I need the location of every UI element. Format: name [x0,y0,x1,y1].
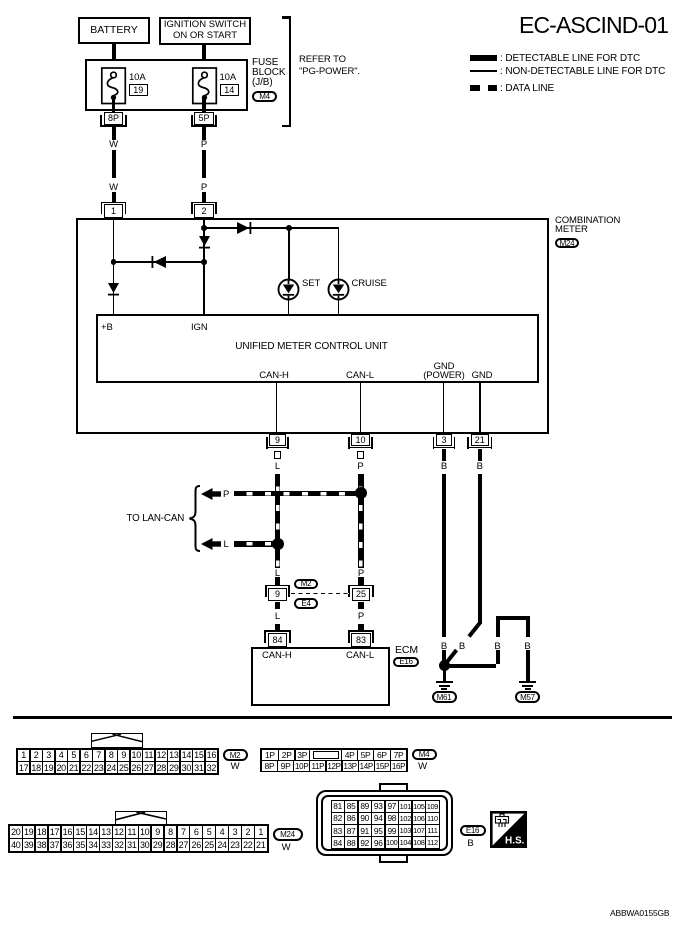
ECM CAN-H label [262,651,292,660]
M24 oval [273,828,303,841]
connector M2 key [91,733,143,748]
ECM box [251,647,391,706]
connector 21 (meter) [471,434,490,446]
IGN pin label [191,323,208,332]
legend non-detectable text [500,67,665,76]
label P above conn25 [353,569,369,578]
M4 colour W [414,762,431,771]
connector 8P [104,112,124,125]
label B [472,462,488,471]
connector M24 pin grid [8,824,269,853]
M2 oval [294,579,318,590]
legend data line text [500,84,554,93]
E16 housing tabs [379,783,409,792]
wire W segment [112,192,116,202]
GND pin label [464,371,500,380]
H.S. view icon [490,811,527,848]
label P below conn25 [353,612,369,621]
junction dot wire2 top [201,225,207,231]
legend detectable text [500,54,640,63]
M57 oval [515,691,540,703]
connector 3 (meter) [436,434,452,446]
+B pin label [101,323,113,332]
CAN-L data line [358,474,364,568]
wire fuse1 to 8P [112,97,116,113]
wire P segment [202,127,206,140]
CRUISE indicator lamp [327,278,350,301]
title EC-ASCIND-01 [420,12,668,39]
junction dot CAN-L / LAN [355,487,367,499]
arrow to LAN (P) [201,488,221,500]
fuse block label [252,58,285,88]
E16 housing outer [316,790,453,856]
wire unit pin x276.6 [276,381,278,434]
fuse 10A no.14 [191,66,218,106]
dashed pair line 9-25 [291,593,349,595]
E16 oval [460,825,486,836]
wire colour label W [106,140,122,149]
ground loop right vertical [526,620,530,637]
fuse block box M4 [85,59,248,111]
GND(POWER) pin label [423,362,465,380]
wire ignition to fuse (P) [202,45,206,73]
diagonal wire 21 to junction [440,620,485,665]
CAN-H data line [275,474,281,568]
connector M4 pin grid [260,748,408,772]
data line to LAN (L) [234,541,278,547]
ground loop bottom bar to junction [444,664,496,668]
ground junction dot [439,660,450,671]
M24 colour W [278,843,295,852]
label B [436,462,452,471]
label L above conn9 [270,569,286,578]
wire CRUISE lamp to unit [338,300,340,314]
label L [270,462,286,471]
ground loop left vertical [496,620,500,637]
horizontal wire y262 [114,261,205,263]
connector 84 (ECM) [264,630,290,632]
fuse block connector M4 oval [252,91,277,102]
wire to SET lamp [288,228,290,279]
label L below conn9 [270,612,286,621]
connector 9 (meter) [269,434,285,446]
arrow P label [223,490,229,499]
inline connector 25 (M2/E4) [348,585,373,587]
connector M24 key [115,811,167,826]
wire fuse2 to 5P [202,97,206,113]
label P [353,462,369,471]
fuse1 number 19 box [129,84,149,96]
junction dot wire2 mid [201,259,207,265]
ignition switch box [159,17,251,45]
diode D4 (right-pointing, y228) [236,221,252,235]
wire P segment [202,150,206,179]
E16 pin grid [331,800,440,849]
connector 1 (combination meter) [101,202,127,204]
SET label [302,279,320,288]
wire colour label P [196,183,212,192]
connector 10 (meter) [351,434,370,446]
connector M2 pin grid [16,748,219,775]
junction dot SET branch [286,225,292,231]
battery box [78,17,150,44]
wire colour label W [106,183,122,192]
combination meter label [555,216,620,234]
connector 5P [194,112,214,125]
wire to CRUISE lamp [338,227,340,279]
CRUISE label [352,279,387,288]
wire node2 down [203,220,205,314]
wire P segment [202,192,206,202]
data line to LAN (P) [234,491,362,497]
refer-to bracket [289,16,292,127]
separator line [13,716,672,719]
connector 2 (combination meter) [191,202,217,204]
M2 oval [223,749,248,761]
legend data line sample [470,85,497,91]
ground wire from conn21 (B) [478,474,482,624]
stub dot to ground [443,669,446,681]
wire W segment [112,150,116,179]
drawing code [610,909,669,918]
combination meter M24 oval [555,238,579,248]
diode D2 (down-pointing, wire1) [107,282,120,297]
wire node1 down [113,220,115,314]
arrow to LAN (L) [201,538,221,550]
wire SET lamp to unit [288,300,290,314]
legend non-detectable line sample [470,70,497,72]
unified meter control unit label [96,342,527,351]
horizontal wire y228 [204,227,339,229]
arrow L label [224,540,229,549]
stub B conn3 [442,449,446,461]
wire battery to fuse (W) [112,44,116,73]
legend detectable line sample [470,55,497,61]
ECM label [395,646,418,655]
junction dot wire1 [111,259,117,265]
CAN-L pin label [342,371,378,380]
ground symbol M57 [519,681,536,683]
connector 83 (ECM) [348,630,374,632]
refer-to text [299,54,360,77]
E16 oval [393,657,419,668]
M4 oval [412,749,437,760]
fuse2 number 14 box [220,84,240,96]
E16 housing inner [321,795,448,852]
E4 oval [294,598,318,609]
wire unit pin x479.8 [479,381,481,434]
fuse1 value 10A [129,73,146,82]
ECM CAN-L label [346,651,374,660]
wire unit pin x360.4 [360,381,362,434]
unified meter control unit box [96,314,539,384]
fuse2 value 10A [220,73,237,82]
svg-text:H.S.: H.S. [505,836,525,847]
ground loop top bar [496,616,530,620]
SET indicator lamp [277,278,300,301]
ground wire from conn3 (B) [442,474,446,637]
M61 oval [432,691,457,703]
stub B conn21 [478,449,482,461]
ground symbol M61 [436,681,453,683]
E16 colour B [462,839,479,848]
CAN-H pin label [256,371,292,380]
diode D3 (down-pointing, wire2) [198,235,211,250]
diode D1 (left-pointing, y262) [151,255,169,269]
M2 colour W [227,762,244,771]
wire colour label P [196,140,212,149]
wire W segment [112,127,116,140]
junction dot CAN-H / LAN [272,538,284,550]
wire unit pin x443.5 [443,381,445,434]
brace TO LAN-CAN [188,485,201,552]
inline connector 9 (M2/E4) [265,585,290,587]
combination meter box [76,218,550,434]
TO LAN-CAN label [127,514,185,523]
fuse 10A no.19 [100,66,127,106]
